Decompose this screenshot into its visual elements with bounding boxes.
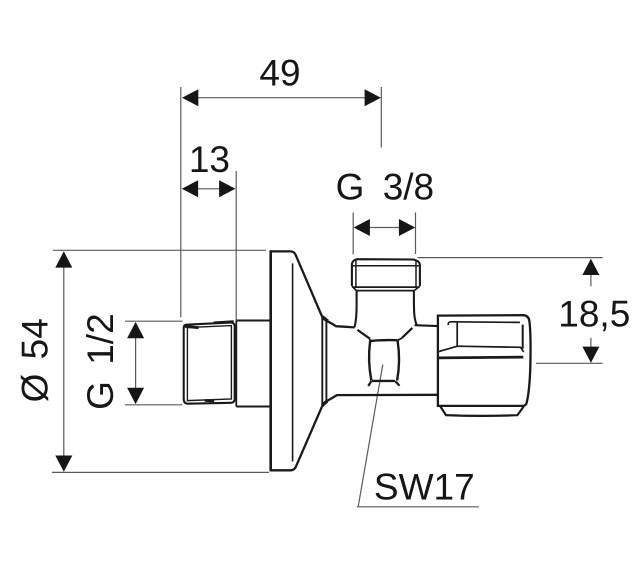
nut corner tick bottom-right [395, 381, 399, 386]
arrowhead G3/8 left [354, 219, 370, 236]
extension line bottom (G1/2) [125, 404, 182, 406]
outlet cap bottom edge [352, 286, 419, 288]
pipe section top edge [236, 320, 270, 322]
arrowhead Ø54 up [55, 251, 72, 267]
dimension line G1/2 [135, 338, 137, 389]
pipe section bottom edge [236, 406, 270, 408]
body chamfer right to nut [402, 328, 412, 338]
outlet neck left [355, 291, 357, 327]
knob inner right vertical [522, 325, 524, 349]
arrowhead G3/8 right [399, 219, 415, 236]
flange left edge [269, 250, 272, 471]
arrowhead 18,5 down [582, 347, 599, 363]
body top edge right [415, 324, 438, 327]
thread shading dash bottom [205, 399, 215, 402]
dimension line 18,5 upper segment [590, 274, 592, 286]
arrowhead G1/2 up [127, 322, 144, 338]
extension line top (18,5) [418, 257, 603, 259]
extension line right (49 centerline) [380, 87, 382, 148]
extension line right (G3/8) [415, 213, 417, 255]
dimension line G3/8 [370, 227, 400, 229]
nut corner tick bottom-left [368, 381, 371, 386]
arrowhead G1/2 down [127, 388, 144, 404]
thread G1/2 outer body [184, 323, 235, 404]
leader line SW17 [358, 365, 383, 507]
pipe section left edge [235, 321, 237, 407]
dimension line 18,5 lower segment [590, 338, 592, 348]
dimension line Ø54 [63, 267, 65, 457]
extension line left (G3/8) [352, 213, 354, 255]
thread shading dash top-right [214, 322, 234, 323]
leader underline SW17 [357, 506, 479, 508]
svg-text:13: 13 [189, 139, 230, 180]
nut SW17 right edge [397, 341, 399, 381]
thread shading dash top-left [185, 326, 199, 327]
nut corner hook top-left [369, 339, 371, 341]
arrowhead 49 left [182, 89, 198, 106]
knob band top line [438, 346, 523, 352]
flange front face line [292, 263, 294, 461]
outlet cap inner top line [353, 265, 420, 267]
nut SW17 left edge [369, 341, 371, 380]
svg-text:Ø 54: Ø 54 [15, 318, 56, 402]
outlet neck right [414, 291, 417, 325]
svg-text:18,5: 18,5 [558, 293, 630, 334]
body chamfer left to nut [357, 330, 370, 339]
arrowhead Ø54 down [55, 456, 72, 472]
flange top profile into body top edge [270, 251, 355, 327]
collar line outer [321, 319, 323, 406]
extension line left (49/13) [180, 87, 182, 317]
nut corner hook top-right [398, 338, 403, 341]
svg-text:G 1/2: G 1/2 [80, 313, 121, 410]
outlet cap bottom chamfer right [414, 287, 419, 291]
knob band bottom thick line [438, 356, 523, 360]
extension line top (Ø54) [53, 249, 266, 251]
flange bottom profile into body bottom edge [270, 395, 439, 471]
flange neck step top [322, 317, 328, 322]
nut SW17 bottom edge [372, 380, 395, 382]
collar line inner [325, 321, 327, 403]
svg-text:SW17: SW17 [374, 467, 475, 508]
outlet cap shoulder line [357, 290, 414, 292]
knob inner left vertical [456, 323, 458, 346]
knob outer outline [438, 315, 531, 406]
thread G1/2 inner face [187, 326, 231, 401]
outlet cap inner right line [415, 260, 417, 286]
flange neck step bottom [322, 401, 327, 405]
arrowhead 49 right [365, 89, 381, 106]
outlet cap outer [352, 259, 420, 286]
knob inner top line [448, 322, 520, 325]
extension line right (13) [235, 171, 237, 320]
nut SW17 top edge [370, 339, 398, 342]
outlet cap bottom chamfer left [352, 287, 356, 291]
extension line bottom (Ø54) [52, 471, 269, 473]
arrowhead 13 right [219, 180, 235, 197]
knob skirt [440, 406, 524, 416]
dimension line 13 [198, 188, 220, 190]
arrowhead 13 left [182, 180, 198, 197]
outlet cap inner left line [355, 260, 357, 287]
extension line bottom (18,5) [536, 362, 603, 364]
arrowhead 18,5 up [582, 259, 599, 275]
svg-text:49: 49 [259, 53, 300, 94]
dimension line 49 [198, 97, 366, 99]
extension line top (G1/2) [125, 320, 183, 322]
svg-text:G 3/8: G 3/8 [336, 166, 435, 207]
